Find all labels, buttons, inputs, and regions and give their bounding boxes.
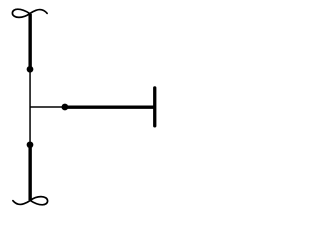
wire: thick vertical bottom segment [28, 145, 31, 200]
top curl (wire continuation flourish) [12, 9, 47, 17]
wire: thin vertical middle segment [29, 69, 31, 145]
junction dot (node C) [62, 104, 69, 111]
junction dot (node A) [27, 66, 34, 73]
junction dot (node B) [27, 141, 34, 148]
bottom curl (wire continuation flourish) [13, 197, 48, 205]
terminal bar (electrode) [153, 88, 156, 126]
wire: thick horizontal segment [65, 105, 155, 108]
wire: thick vertical top segment [28, 14, 31, 70]
wire: thin horizontal branch [30, 106, 65, 108]
